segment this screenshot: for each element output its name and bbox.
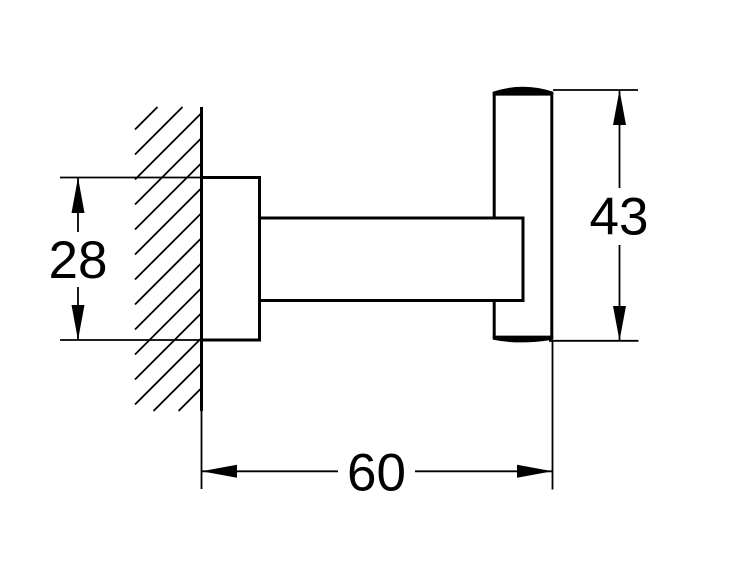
mounting plate [200,176,260,342]
dim 28: bottom arrow [72,305,85,340]
extension line: 28 dim bottom (left of plate) [60,339,203,341]
arm [260,217,524,303]
dim 43: top arrow [613,90,626,125]
extension line: 28 dim top (left of plate) [60,177,203,179]
dim 28: top arrow [72,178,85,214]
dim 28: vertical dimension line [77,178,79,341]
dim 60: left extension line (below wall) [201,411,203,489]
knob top face [493,87,553,96]
dim 60: right arrow [517,465,553,478]
dim 60: left arrow [202,465,238,478]
knob bottom face [493,336,553,343]
dim 28: label [49,232,107,287]
dim 43: bottom extension line [549,340,639,342]
wall hatching [135,107,202,411]
dim 43: vertical dimension line [619,90,621,341]
dim 43: top extension line [553,89,638,91]
svg-text:28: 28 [49,231,108,290]
dim 60: horizontal dimension line [202,470,553,472]
dim 60: right extension line (below knob) [552,341,554,490]
wall surface line [200,107,203,411]
dim 60: label [338,444,415,499]
svg-text:60: 60 [347,444,406,503]
svg-text:43: 43 [590,188,649,247]
dim 43: label [590,188,649,245]
knob (hook end piece) [494,92,552,339]
dim 43: bottom arrow [613,306,626,341]
